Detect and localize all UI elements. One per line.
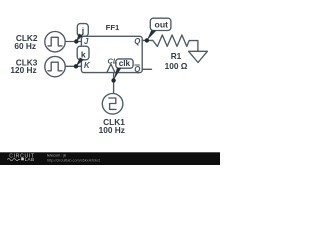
svg-text:k: k xyxy=(81,49,86,59)
svg-text:j: j xyxy=(81,25,84,35)
svg-text:R1: R1 xyxy=(171,51,182,61)
svg-text:LAB: LAB xyxy=(25,157,35,162)
svg-text:Q: Q xyxy=(134,65,140,74)
svg-text:http://circuitlab.com/c6kx4rh9: http://circuitlab.com/c6kx4rh9o2 xyxy=(47,158,100,162)
svg-text:100 Ω: 100 Ω xyxy=(165,61,188,71)
svg-text:120 Hz: 120 Hz xyxy=(10,65,36,75)
svg-text:clk: clk xyxy=(119,59,131,68)
svg-text:100 Hz: 100 Hz xyxy=(99,125,125,135)
svg-text:CL: CL xyxy=(108,57,118,66)
svg-text:Q: Q xyxy=(134,37,140,46)
svg-text:J: J xyxy=(84,37,89,46)
svg-text:60 Hz: 60 Hz xyxy=(14,41,36,51)
svg-text:FF1: FF1 xyxy=(106,23,120,32)
svg-text:telecom : jk: telecom : jk xyxy=(47,154,66,158)
svg-text:out: out xyxy=(155,20,169,30)
